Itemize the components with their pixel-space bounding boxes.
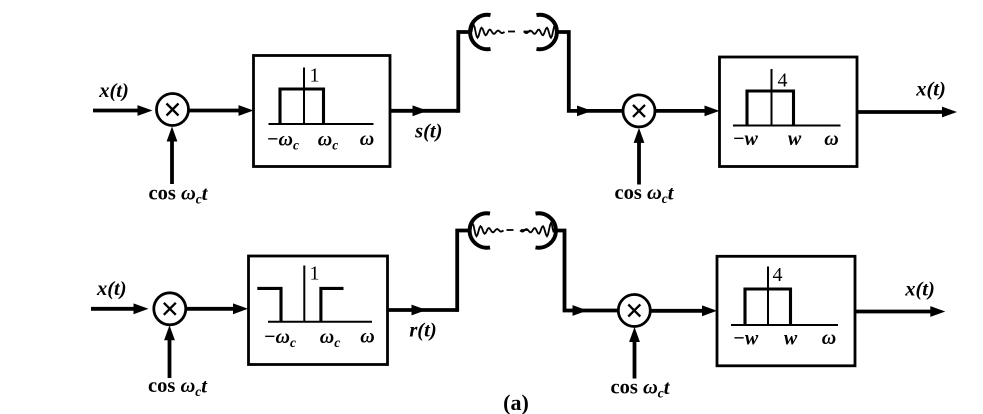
H4 response curve (lowpass, height 4) xyxy=(745,289,791,325)
wire: top input into M1 xyxy=(93,105,153,116)
radio wave squiggle (top left) xyxy=(472,25,516,38)
label -wc (H1 left cutoff) xyxy=(267,129,299,153)
label w (H4 right cutoff) xyxy=(784,328,798,350)
filter H3 box (ideal highpass, gain 1) xyxy=(249,256,388,365)
filter H2 box (ideal lowpass, gain 4) xyxy=(720,57,858,167)
wire: carrier cos wct into M3 xyxy=(164,325,175,378)
transmit antenna (bottom left arc) xyxy=(470,213,490,247)
label 4 (H2 gain) xyxy=(778,70,788,92)
label x(t) bottom-left input xyxy=(96,278,127,300)
label cos wct top-right xyxy=(615,182,675,206)
transmit antenna (top left arc) xyxy=(470,15,490,49)
svg-text:ω: ω xyxy=(824,128,838,150)
wire: H2 output x(t) xyxy=(857,107,957,118)
multiplier M4 xyxy=(618,295,650,327)
multiplier M1 xyxy=(157,94,189,126)
svg-text:−ωc: −ωc xyxy=(264,326,296,350)
svg-text:1: 1 xyxy=(310,65,320,87)
label cos wct bottom-left xyxy=(148,375,208,399)
wire: carrier cos wct into M1 xyxy=(167,127,178,185)
label cos wct bottom-right xyxy=(611,377,671,401)
svg-text:1: 1 xyxy=(310,262,320,284)
receive antenna (bottom right arc) xyxy=(536,213,556,247)
multiplier M3 xyxy=(154,293,186,325)
wire: carrier cos wct into M2 xyxy=(634,128,645,185)
svg-text:r(t): r(t) xyxy=(409,320,436,342)
svg-text:x(t): x(t) xyxy=(98,80,129,102)
label x(t) top-right output xyxy=(915,79,946,101)
label w (H2 axis) xyxy=(824,128,838,150)
H2 frequency axis xyxy=(733,69,841,126)
radio wave squiggle (top right) xyxy=(524,25,558,38)
svg-text:(a): (a) xyxy=(503,390,529,414)
wire: H1 output s(t) to transmit antenna xyxy=(390,32,471,116)
label cos wct top-left xyxy=(149,183,209,207)
wire: M4 to filter H4 xyxy=(650,305,717,316)
radio wave squiggle (bottom left) xyxy=(471,223,514,236)
label w (H1 axis) xyxy=(360,128,374,150)
svg-text:4: 4 xyxy=(773,264,783,286)
wire: carrier cos wct into M4 xyxy=(629,327,640,379)
wire: bottom input into M3 xyxy=(91,303,149,314)
H1 response curve (lowpass, height 1) xyxy=(280,89,324,124)
svg-text:ω: ω xyxy=(360,326,374,348)
svg-text:4: 4 xyxy=(778,70,788,92)
wire: receive antenna down into M4 xyxy=(553,231,619,316)
svg-text:−w: −w xyxy=(733,328,758,350)
svg-text:x(t): x(t) xyxy=(915,79,946,101)
H1 frequency axis xyxy=(269,68,374,125)
label (a) figure caption xyxy=(503,390,529,414)
wire: H4 output x(t) xyxy=(855,306,945,317)
label w (H3 axis) xyxy=(360,326,374,348)
H3 response curve (highpass, height 1) xyxy=(257,288,343,321)
label w (H2 right cutoff) xyxy=(788,128,802,150)
label -wc (H3 left cutoff) xyxy=(264,326,296,350)
label wc (H3 right cutoff) xyxy=(320,326,340,350)
svg-text:cos ωct: cos ωct xyxy=(148,375,208,399)
svg-text:cos ωct: cos ωct xyxy=(149,183,209,207)
H3 frequency axis xyxy=(268,266,372,322)
label 1 (H3 gain) xyxy=(310,262,320,284)
label s(t) xyxy=(414,121,442,143)
svg-text:s(t): s(t) xyxy=(414,121,442,143)
label -w (H2 left cutoff) xyxy=(733,128,758,150)
receive antenna (top right arc) xyxy=(537,15,557,49)
multiplier M2 xyxy=(623,95,655,127)
svg-text:cos ωct: cos ωct xyxy=(611,377,671,401)
wire: M2 to filter H2 xyxy=(655,106,720,117)
H2 response curve (lowpass, height 4) xyxy=(747,91,794,126)
wire: M1 to filter H1 xyxy=(189,105,254,116)
wire: receive antenna down into M2 xyxy=(556,32,624,116)
label 1 (H1 gain) xyxy=(310,65,320,87)
svg-text:ωc: ωc xyxy=(320,326,340,350)
H4 frequency axis xyxy=(731,267,838,326)
filter H4 box (ideal lowpass, gain 4) xyxy=(717,256,855,366)
label 4 (H4 gain) xyxy=(773,264,783,286)
svg-text:ω: ω xyxy=(822,327,836,349)
svg-text:−ωc: −ωc xyxy=(267,129,299,153)
filter H1 box (ideal bandlimiting filter, gain 1) xyxy=(254,56,391,167)
svg-text:−w: −w xyxy=(733,128,758,150)
svg-text:ωc: ωc xyxy=(318,129,338,153)
svg-text:cos ωct: cos ωct xyxy=(615,182,675,206)
label x(t) top-left input xyxy=(98,80,129,102)
svg-text:x(t): x(t) xyxy=(904,279,935,301)
radio wave squiggle (bottom right) xyxy=(520,223,553,236)
wire: M3 to filter H3 xyxy=(186,303,248,314)
svg-text:w: w xyxy=(784,328,798,350)
label x(t) bottom-right output xyxy=(904,279,935,301)
svg-text:x(t): x(t) xyxy=(96,278,127,300)
label wc (H1 right cutoff) xyxy=(318,129,338,153)
svg-text:ω: ω xyxy=(360,128,374,150)
svg-text:w: w xyxy=(788,128,802,150)
label w (H4 axis) xyxy=(822,327,836,349)
label r(t) xyxy=(409,320,436,342)
label -w (H4 left cutoff) xyxy=(733,328,758,350)
wire: H3 output r(t) to transmit antenna xyxy=(388,231,471,316)
